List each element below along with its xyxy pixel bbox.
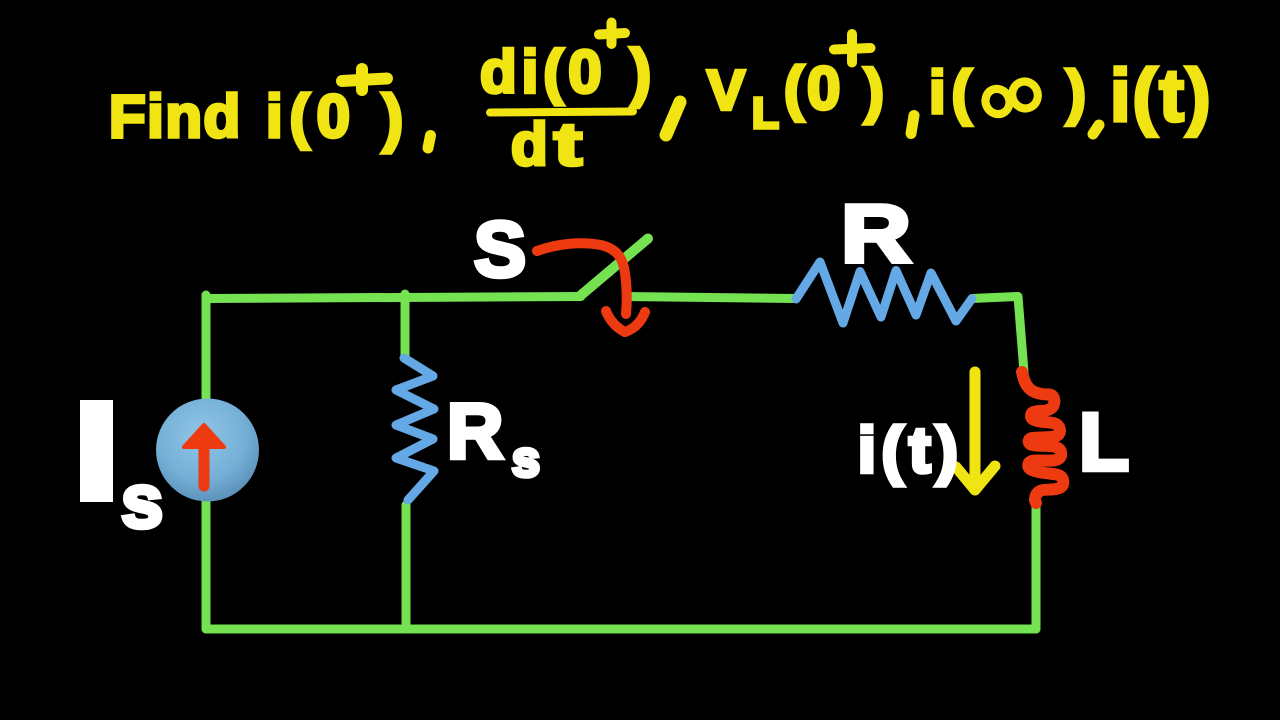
wire Rs branch top	[401, 294, 410, 356]
resistor Rs zigzag	[396, 358, 434, 500]
comma 4	[1093, 125, 1099, 134]
svg-text:i(t): i(t)	[1110, 54, 1213, 137]
wire bottom	[206, 625, 1036, 634]
svg-text:R: R	[841, 189, 911, 280]
comma 1	[428, 136, 431, 149]
svg-text:L: L	[752, 89, 779, 138]
switch blade	[580, 239, 648, 297]
comma 2	[666, 102, 680, 135]
wire after R to corner	[972, 297, 1024, 373]
svg-text:S: S	[474, 205, 526, 293]
comma 3	[911, 116, 914, 134]
svg-text:i(: i(	[929, 59, 978, 126]
superscript plus over di(0	[599, 23, 625, 45]
svg-text:i(t): i(t)	[858, 414, 964, 486]
wire top right segment	[629, 297, 796, 299]
inductor L coil	[1022, 372, 1063, 503]
svg-text:d: d	[511, 111, 548, 178]
svg-text:(0: (0	[784, 55, 843, 122]
svg-text:): )	[382, 82, 403, 154]
infinity symbol	[981, 78, 1041, 118]
superscript plus over i(0	[342, 69, 387, 90]
wire top left segment	[206, 297, 581, 299]
svg-text:): )	[864, 58, 884, 125]
svg-text:): )	[630, 36, 651, 108]
switch arrow (red)	[537, 243, 627, 314]
svg-text:V: V	[707, 59, 745, 123]
svg-text:Find: Find	[109, 83, 242, 150]
svg-text:t: t	[554, 111, 582, 178]
current source arrow stem	[199, 443, 210, 486]
superscript plus over VL(0	[834, 34, 871, 63]
wire right lower	[1032, 505, 1041, 629]
svg-text:R: R	[447, 387, 503, 475]
svg-text:s: s	[121, 460, 163, 545]
svg-text:i(0: i(0	[266, 83, 357, 150]
i(t) current arrow (yellow)	[970, 372, 981, 484]
wire Rs branch bottom	[402, 505, 411, 629]
switch arrowhead	[606, 311, 625, 332]
label Is : I bar	[80, 400, 113, 502]
current source arrowhead	[184, 425, 224, 447]
svg-text:s: s	[512, 431, 540, 487]
svg-text:L: L	[1079, 397, 1129, 488]
wire left vertical	[202, 295, 211, 629]
svg-text:): )	[1066, 59, 1086, 126]
current source Is circle	[156, 399, 259, 502]
resistor R zigzag	[796, 262, 972, 323]
fraction bar	[490, 112, 633, 113]
svg-text:di(0: di(0	[480, 39, 607, 106]
